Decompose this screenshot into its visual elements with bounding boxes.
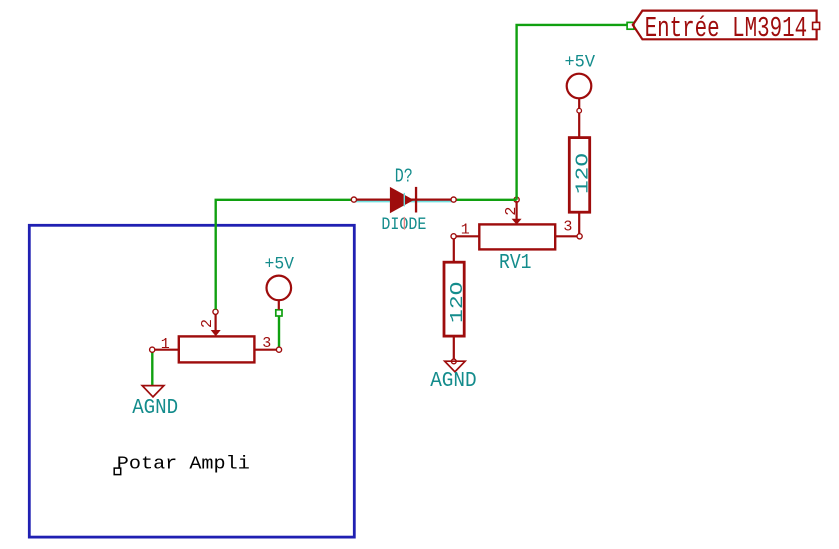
svg-text:12O: 12O bbox=[447, 282, 468, 324]
RV1 pin3 bbox=[555, 235, 577, 237]
dangling wire end square at label bbox=[627, 22, 634, 29]
svg-text:+5V: +5V bbox=[565, 53, 596, 73]
wire left pot pin3 to +5V bbox=[278, 316, 280, 347]
sheet Potar Ampli bbox=[29, 225, 354, 537]
sheet name anchor square bbox=[114, 468, 121, 475]
left pot pin3 bbox=[254, 349, 276, 351]
ground AGND left bbox=[132, 386, 178, 420]
svg-text:1: 1 bbox=[461, 222, 470, 239]
wire diode left to pot pin2 bbox=[216, 200, 352, 310]
RV1 pin1 bbox=[456, 235, 479, 237]
svg-text:2: 2 bbox=[199, 319, 216, 328]
hierarchical label Entrée LM3914 bbox=[633, 11, 817, 45]
power symbol +5V (left) bbox=[265, 254, 295, 309]
diode body triangle bbox=[390, 187, 414, 213]
RV1 pin2 wiper bbox=[515, 201, 517, 220]
pin end circle +5V/resistor (right) bbox=[577, 108, 582, 113]
svg-text:3: 3 bbox=[262, 335, 271, 352]
left pot pin1 bbox=[155, 349, 179, 351]
wire junction to diode right bbox=[456, 199, 516, 201]
svg-text:RV1: RV1 bbox=[499, 252, 532, 275]
resistor 120 lower bbox=[444, 239, 468, 359]
svg-text:AGND: AGND bbox=[132, 397, 178, 420]
wire left pot pin1 to AGND bbox=[151, 352, 153, 385]
resistor R right 120 bbox=[569, 113, 593, 234]
potentiometer RV1 bbox=[451, 201, 582, 275]
svg-text:D?: D? bbox=[395, 165, 413, 187]
svg-text:12O: 12O bbox=[573, 153, 594, 194]
left pot pin2 wiper bbox=[215, 314, 217, 331]
pin end circle diode right bbox=[451, 197, 456, 202]
pin end circle RV1 pin2 (junction) bbox=[514, 197, 519, 202]
diode cathode bar bbox=[415, 187, 417, 213]
cursor cross horizontal (cyan) bbox=[353, 200, 456, 202]
svg-text:+5V: +5V bbox=[265, 254, 295, 274]
svg-text:AGND: AGND bbox=[430, 370, 477, 393]
svg-text:1: 1 bbox=[161, 336, 170, 353]
cursor cross vertical (cyan) bbox=[403, 193, 405, 207]
ground AGND right bbox=[430, 359, 477, 393]
dangling wire end square at left +5V bbox=[276, 310, 282, 316]
cursor line over text (pink) bbox=[403, 217, 405, 230]
potentiometer (left, in sheet) bbox=[150, 314, 282, 362]
svg-text:Potar Ampli: Potar Ampli bbox=[117, 455, 250, 475]
svg-text:Entrée LM3914: Entrée LM3914 bbox=[645, 12, 808, 45]
power symbol +5V (right) bbox=[565, 53, 596, 111]
wire to hierarchical label (top) bbox=[517, 25, 628, 200]
diode D? bbox=[351, 165, 456, 235]
pin end circle diode left bbox=[351, 197, 356, 202]
svg-text:2: 2 bbox=[503, 207, 520, 216]
diode pin line bbox=[354, 199, 454, 201]
label anchor square bbox=[813, 22, 820, 29]
pin end circle left pot pin2 bbox=[213, 309, 218, 314]
svg-text:3: 3 bbox=[563, 219, 572, 236]
